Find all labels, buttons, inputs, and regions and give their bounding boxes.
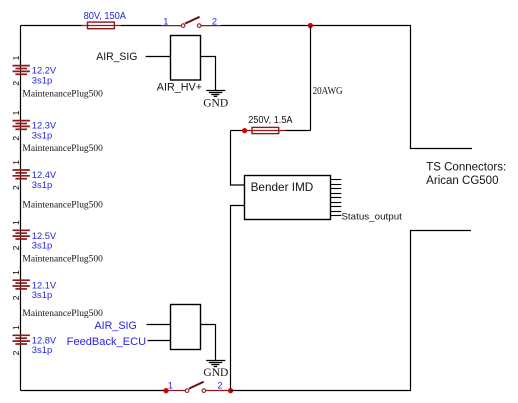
svg-text:2: 2: [217, 380, 222, 390]
svg-text:FeedBack_ECU: FeedBack_ECU: [67, 336, 146, 348]
svg-text:3s1p: 3s1p: [32, 75, 52, 86]
svg-text:MaintenancePlug500: MaintenancePlug500: [22, 308, 103, 319]
Bender right pins: [331, 180, 342, 216]
svg-text:1: 1: [11, 110, 21, 115]
wire U1 right to GND: [201, 57, 216, 91]
wire left bus: [20, 26, 22, 391]
junction node at 310,25: [308, 23, 313, 28]
fuse F2 250V,1.5A: [247, 127, 286, 133]
svg-text:AIR_SIG: AIR_SIG: [96, 51, 137, 63]
svg-text:1: 1: [163, 16, 168, 26]
wire Bender pin2 down to bottom junction: [231, 206, 245, 391]
svg-text:1: 1: [11, 55, 21, 60]
svg-text:250V, 1.5A: 250V, 1.5A: [248, 115, 293, 126]
svg-text:1: 1: [168, 380, 173, 390]
svg-text:GND: GND: [203, 365, 228, 379]
svg-text:GND: GND: [203, 95, 228, 109]
battery B1 12.2V: [11, 55, 30, 85]
svg-text:TS Connectors:: TS Connectors:: [426, 162, 506, 174]
battery B4 12.5V: [11, 220, 30, 250]
svg-text:AIR_SIG: AIR_SIG: [95, 320, 137, 332]
svg-text:MaintenancePlug500: MaintenancePlug500: [22, 199, 103, 210]
svg-text:MaintenancePlug500: MaintenancePlug500: [22, 254, 103, 265]
battery B5 12.1V: [11, 270, 30, 300]
svg-text:Status_output: Status_output: [341, 212, 402, 223]
svg-text:3s1p: 3s1p: [32, 130, 52, 141]
ground symbol GND top: [206, 91, 225, 97]
junction node SW2 pin1: [163, 388, 168, 393]
wire corner down to Bender pin1: [231, 131, 245, 186]
relay box U1 AIR_HV+: [171, 36, 201, 81]
wire 20AWG vertical x=310: [310, 26, 312, 131]
svg-text:2: 2: [11, 295, 21, 300]
svg-text:2: 2: [11, 81, 21, 86]
svg-text:3s1p: 3s1p: [32, 290, 52, 301]
battery B6 12.8V: [11, 325, 30, 355]
switch SW1: [162, 17, 222, 28]
ground symbol GND bottom: [206, 361, 225, 367]
svg-text:3s1p: 3s1p: [32, 180, 52, 191]
relay box U3 bottom: [171, 305, 201, 350]
fuse F1 80V,150A: [81, 22, 121, 29]
svg-text:1: 1: [11, 270, 21, 275]
battery B2 12.3V: [11, 110, 30, 140]
wire AIR_SIG to U3: [147, 324, 171, 326]
svg-text:AIR_HV+: AIR_HV+: [157, 81, 202, 93]
svg-text:Bender IMD: Bender IMD: [251, 180, 314, 194]
bottom wire right and up bracket: [231, 231, 471, 391]
AIR_SIG wire top: [146, 56, 171, 58]
wire FeedBack_ECU to U3: [148, 340, 171, 342]
Bender IMD box U2: [245, 176, 331, 220]
svg-text:2: 2: [11, 185, 21, 190]
svg-text:MaintenancePlug500: MaintenancePlug500: [22, 89, 103, 100]
svg-text:2: 2: [11, 245, 21, 250]
svg-text:80V, 150A: 80V, 150A: [84, 11, 127, 22]
junction node bottom x=230: [228, 388, 233, 393]
junction node fuse F2 left: [242, 128, 247, 133]
svg-text:Arican CG500: Arican CG500: [426, 175, 498, 187]
svg-text:3s1p: 3s1p: [32, 241, 52, 252]
svg-text:MaintenancePlug500: MaintenancePlug500: [22, 143, 103, 154]
wire top from bus to fuse F1: [21, 25, 83, 27]
wire from corner to fuse F2: [231, 130, 245, 132]
svg-text:2: 2: [212, 16, 217, 26]
wire fuse F1 to switch SW1: [121, 25, 162, 27]
svg-text:1: 1: [11, 325, 21, 330]
battery B3 12.4V: [11, 160, 30, 190]
svg-text:1: 1: [11, 160, 21, 165]
svg-text:3s1p: 3s1p: [32, 345, 52, 356]
switch SW2: [166, 382, 229, 393]
svg-text:2: 2: [11, 350, 21, 355]
wire U3 right to GND bottom: [201, 325, 216, 361]
wire F2 right to vertical: [285, 130, 310, 132]
wire switch SW1 to node and right: [221, 26, 472, 149]
svg-text:2: 2: [11, 136, 21, 141]
bottom wire from bus to switch SW2: [21, 390, 165, 392]
svg-text:20AWG: 20AWG: [313, 85, 343, 97]
svg-text:1: 1: [11, 220, 21, 225]
